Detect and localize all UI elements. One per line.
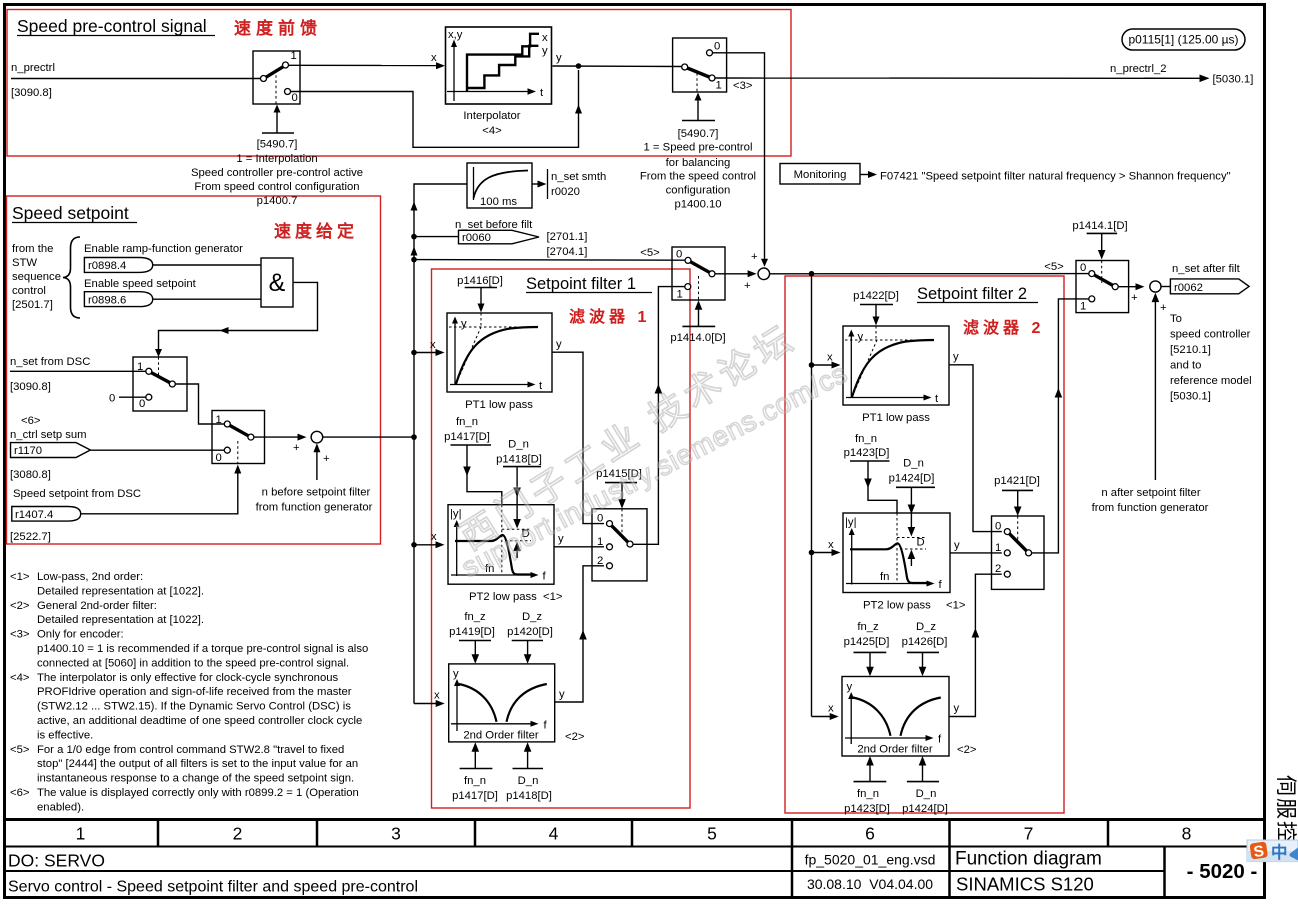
section title Speed pre-control signal (17, 16, 215, 36)
red group box Setpoint filter 1 (432, 269, 691, 808)
svg-text:Setpoint filter 1: Setpoint filter 1 (526, 275, 636, 293)
svg-text:<4>: <4> (10, 672, 30, 684)
svg-text:Setpoint filter 2: Setpoint filter 2 (917, 285, 1027, 303)
svg-text:n_prectrl_2: n_prectrl_2 (1110, 63, 1167, 75)
wire n_prectrl_2 output (715, 75, 1210, 83)
svg-text:Function diagram: Function diagram (955, 849, 1102, 870)
parameter fn_z p1425 D_z p1426 (844, 621, 948, 648)
svg-text:p1418[D]: p1418[D] (506, 790, 552, 802)
table scale numbers (76, 824, 1192, 844)
label PT2 low pass filter2 (863, 600, 966, 612)
svg-text:1: 1 (716, 80, 722, 92)
label fn_n D_n p1423 p1424 below (844, 788, 948, 815)
svg-text:The value is displayed correct: The value is displayed correctly only wi… (37, 787, 359, 799)
wire switch S5b output to summing node S5 (1118, 283, 1145, 304)
svg-text:- 5020 -: - 5020 - (1187, 860, 1258, 883)
svg-text:Detailed representation at [10: Detailed representation at [1022]. (37, 614, 204, 626)
svg-text:n_set smth: n_set smth (551, 171, 606, 183)
label n_set from DSC (10, 356, 90, 393)
svg-text:control: control (12, 285, 46, 297)
svg-text:Speed pre-control signal: Speed pre-control signal (17, 16, 207, 36)
connector tag r0062 (1170, 279, 1249, 294)
svg-text:<5>: <5> (640, 247, 660, 259)
svg-text:1: 1 (216, 414, 222, 426)
svg-text:x: x (430, 339, 436, 351)
svg-text:p1426[D]: p1426[D] (902, 636, 948, 648)
wire switch SA output to switch SB (175, 384, 224, 424)
wire interpolator output y to switch S2 (553, 52, 683, 67)
svg-text:is effective.: is effective. (37, 729, 93, 741)
svg-text:y: y (556, 52, 562, 64)
svg-text:n before setpoint filter: n before setpoint filter (262, 487, 371, 499)
wire PT2 filter1 output to switch SF1 pos1 (554, 533, 604, 547)
svg-text:[2704.1]: [2704.1] (547, 246, 588, 258)
svg-text:n_set before filt: n_set before filt (455, 219, 533, 231)
svg-text:reference model: reference model (1170, 375, 1252, 387)
parameter fn_n p1423 (844, 433, 890, 459)
svg-text:p1418[D]: p1418[D] (496, 454, 542, 466)
binector tag r1407.4 (12, 507, 81, 522)
PT2 low pass block filter2 (843, 513, 950, 593)
wire n_prectrl to switch S1 (11, 78, 261, 80)
interpolator U1 block (446, 27, 552, 104)
wire PT2 filter2 output to switch SF2 pos1 (950, 540, 1002, 553)
svg-text:r0020: r0020 (551, 186, 580, 198)
parameter p1414.1 (1072, 220, 1127, 232)
svg-text:r0898.6: r0898.6 (88, 295, 126, 307)
svg-text:0: 0 (995, 521, 1001, 533)
svg-text:from function generator: from function generator (256, 502, 373, 514)
svg-text:p1419[D]: p1419[D] (449, 626, 495, 638)
svg-text:x: x (431, 52, 437, 64)
red group box Setpoint filter 2 (785, 276, 1064, 813)
svg-text:0: 0 (714, 41, 720, 53)
svg-text:fn_n: fn_n (464, 775, 486, 787)
svg-text:<3>: <3> (10, 629, 30, 641)
switch S2 control arrow (682, 93, 715, 121)
svg-text:&: & (269, 269, 286, 297)
table text SINAMICS S120 (956, 874, 1094, 895)
wire r1407.4 to switch SB control (81, 465, 242, 514)
svg-text:y: y (453, 668, 459, 680)
svg-text:1: 1 (76, 824, 86, 844)
label switch S2 note 3 (733, 80, 753, 92)
svg-text:p1400.10: p1400.10 (674, 199, 721, 211)
svg-text:PT2 low pass: PT2 low pass (863, 600, 931, 612)
svg-text:1 = Speed pre-control: 1 = Speed pre-control (644, 142, 753, 154)
watermark url (456, 357, 852, 583)
svg-text:instantaneous response to a ch: instantaneous response to a change of th… (37, 773, 354, 785)
svg-text:速度给定: 速度给定 (274, 221, 358, 241)
red chinese label filter 1 (569, 307, 650, 326)
svg-text:x: x (434, 690, 440, 702)
table text page number 5020 (1187, 860, 1258, 883)
svg-text:Speed setpoint: Speed setpoint (12, 203, 129, 223)
svg-text:0: 0 (139, 398, 145, 410)
node A junction dot (576, 63, 582, 69)
svg-text:From speed control configurati: From speed control configuration (194, 181, 359, 193)
svg-text:Detailed representation at [10: Detailed representation at [1022]. (37, 585, 204, 597)
binector tag r0898.6 (84, 292, 152, 307)
table text date version (807, 876, 933, 892)
table text DO: SERVO (8, 851, 105, 871)
svg-text:D: D (917, 537, 925, 549)
switch S5a travel to fixed stop bypass (672, 247, 725, 301)
svg-text:滤波器 1: 滤波器 1 (569, 307, 650, 326)
switch S5b final bypass selector (1076, 261, 1129, 313)
svg-text:[3090.8]: [3090.8] (11, 87, 52, 99)
label note 5 (640, 247, 660, 259)
svg-text:Enable speed setpoint: Enable speed setpoint (84, 278, 197, 290)
wire switch S5a output to summing node S4 (715, 270, 757, 292)
svg-text:To: To (1170, 313, 1182, 325)
red chinese label filter 2 (963, 318, 1044, 337)
label p1414.0 (670, 332, 725, 344)
svg-text:configuration: configuration (666, 185, 731, 197)
svg-text:p0115[1] (125.00 µs): p0115[1] (125.00 µs) (1128, 33, 1238, 47)
vertical bus wire with junctions (411, 234, 418, 704)
svg-text:伺: 伺 (1274, 775, 1297, 796)
svg-text:fn_n: fn_n (855, 433, 877, 445)
svg-text:+: + (1160, 302, 1167, 314)
wire switch SF2 output up to switch S5b pos1 (1032, 299, 1089, 553)
label to speed controller (1170, 313, 1252, 403)
PT1 low pass block filter1 (447, 313, 552, 392)
svg-text:fn_z: fn_z (857, 621, 879, 633)
smoothing block 100ms (467, 163, 532, 208)
p1419 p1420 arrows into 2nd order filter1 (459, 641, 543, 664)
svg-text:p1414.1[D]: p1414.1[D] (1072, 220, 1127, 232)
svg-text:PT1 low pass: PT1 low pass (465, 399, 533, 411)
svg-text:<2>: <2> (957, 744, 977, 756)
svg-text:x: x (828, 703, 834, 715)
svg-text:p1414.0[D]: p1414.0[D] (670, 332, 725, 344)
svg-text:<1>: <1> (10, 571, 30, 583)
label note 2 filter2 (957, 744, 977, 756)
svg-text:滤波器 2: 滤波器 2 (963, 318, 1044, 337)
svg-text:for balancing: for balancing (666, 157, 731, 169)
svg-text:n_set from DSC: n_set from DSC (10, 356, 90, 368)
wire bus to 100ms block (411, 184, 468, 235)
svg-text:D_z: D_z (522, 611, 542, 623)
p1414.1 arrow into switch S5b (1087, 233, 1118, 259)
svg-text:<1>: <1> (543, 591, 563, 603)
parameter p1416 (457, 275, 503, 287)
table text Function diagram (955, 849, 1102, 870)
wire switch S1 pos0 bypass to node A (291, 70, 583, 147)
summing node S4 (758, 268, 770, 280)
svg-text:fn_n: fn_n (857, 788, 879, 800)
label Interpolator (463, 110, 520, 137)
svg-text:<5>: <5> (10, 744, 30, 756)
label n_set smth r0020 (551, 171, 606, 198)
svg-text:y: y (954, 703, 960, 715)
wire function generator input to S5 (1152, 293, 1160, 480)
label n_ctrl setp sum (10, 415, 87, 481)
svg-text:Monitoring: Monitoring (794, 169, 847, 181)
svg-text:[2701.1]: [2701.1] (547, 231, 588, 243)
svg-text:中: 中 (1271, 842, 1288, 862)
wire switch S1 pos1 to interpolator (289, 52, 446, 69)
connector tag r1170 (11, 443, 91, 458)
label n_set before filt (455, 219, 533, 231)
wire 2nd order filter2 output to switch SF2 pos2 (949, 574, 1002, 716)
svg-text:p1423[D]: p1423[D] (844, 447, 890, 459)
svg-text:1: 1 (597, 536, 603, 548)
parameter fn_n p1423 below (854, 756, 887, 782)
svg-text:Servo control - Speed setpoint: Servo control - Speed setpoint filter an… (8, 879, 418, 896)
svg-text:7: 7 (1024, 824, 1034, 844)
svg-text:enabled).: enabled). (37, 801, 84, 813)
svg-text:服: 服 (1274, 798, 1297, 819)
svg-text:2: 2 (233, 824, 243, 844)
switch S1 control arrow from p1400.7 (262, 105, 294, 134)
svg-text:[3090.8]: [3090.8] (10, 381, 51, 393)
parameter D_n p1418 below (513, 742, 544, 768)
wire bus x into 2nd order filter2 (812, 703, 839, 721)
svg-text:30.08.10 V04.04.00: 30.08.10 V04.04.00 (807, 876, 933, 892)
p1417 arrow into PT2 filter1 (451, 445, 502, 505)
label 5490.7 balancing note (640, 128, 756, 211)
svg-text:y: y (542, 45, 548, 57)
svg-text:0: 0 (109, 393, 115, 405)
label Enable ramp-function generator (84, 243, 243, 255)
label Speed setpoint from DSC (10, 488, 141, 543)
svg-text:p1425[D]: p1425[D] (844, 636, 890, 648)
svg-text:and to: and to (1170, 360, 1201, 372)
title block table lines (3, 820, 1265, 898)
svg-text:y: y (847, 681, 853, 693)
svg-text:speed controller: speed controller (1170, 329, 1251, 341)
svg-text:<6>: <6> (10, 787, 30, 799)
svg-text:connected at [5060] in additio: connected at [5060] in addition to the s… (37, 657, 349, 669)
svg-text:y: y (858, 331, 864, 343)
watermark chinese forum (452, 316, 803, 558)
label 5490.7 interpolation note (191, 139, 363, 208)
svg-text:r0062: r0062 (1174, 282, 1203, 294)
p1415 arrow into switch SF1 (605, 483, 637, 509)
wire function generator input to S3 (313, 443, 320, 480)
svg-text:5: 5 (707, 824, 717, 844)
svg-text:p1420[D]: p1420[D] (507, 626, 553, 638)
label note 5 right (1044, 261, 1064, 273)
wire switch SB output to summing node S3 (254, 434, 307, 454)
sampling time pill p0115 (1122, 29, 1245, 50)
svg-text:active, an additional deadtime: active, an additional deadtime of one sp… (37, 715, 362, 727)
svg-text:For a 1/0 edge from control co: For a 1/0 edge from control command STW2… (37, 744, 344, 756)
wire bus branch to filter bypass switch S5a (414, 259, 685, 262)
parameter fn_n p1417 (444, 416, 490, 443)
red group box Speed setpoint (7, 196, 381, 544)
svg-text:p1400.10 = 1 is recommended if: p1400.10 = 1 is recommended if a torque … (37, 643, 368, 655)
svg-text:from the: from the (12, 243, 53, 255)
svg-text:p1400.7: p1400.7 (257, 195, 298, 207)
switch SB r1170 selector (212, 411, 265, 465)
svg-text:100 ms: 100 ms (480, 196, 517, 208)
svg-text:r0060: r0060 (462, 232, 491, 244)
binector tag r0898.4 (84, 258, 152, 273)
svg-text:n_prectrl: n_prectrl (11, 62, 55, 74)
wire bus x into PT2 filter1 (414, 531, 445, 548)
svg-text:[5490.7]: [5490.7] (678, 128, 719, 140)
svg-text:Speed controller pre-control a: Speed controller pre-control active (191, 167, 363, 179)
svg-text:速度前馈: 速度前馈 (234, 18, 322, 38)
label F07421 fault text (880, 171, 1231, 183)
svg-text:+: + (1131, 292, 1138, 304)
table text diagram title (8, 879, 418, 896)
curly brace (63, 237, 80, 318)
svg-text:STW: STW (12, 257, 37, 269)
node n_prectrl input label (11, 62, 55, 99)
wire 2nd order filter1 output to switch SF1 pos2 (555, 566, 604, 702)
svg-text:D_n: D_n (903, 458, 924, 470)
svg-text:p1417[D]: p1417[D] (452, 790, 498, 802)
monitoring block (780, 164, 860, 185)
svg-text:[5030.1]: [5030.1] (1213, 74, 1254, 86)
vertical bus wire filter2 (809, 274, 815, 717)
svg-text:stop" [2444] the output of all: stop" [2444] the output of all filters i… (37, 758, 358, 770)
svg-text:<5>: <5> (1044, 261, 1064, 273)
label n_set after filt (1172, 263, 1241, 275)
svg-text:<2>: <2> (10, 600, 30, 612)
PT1 low pass block filter2 (843, 326, 949, 405)
svg-text:Only for encoder:: Only for encoder: (37, 629, 124, 641)
svg-text:+: + (744, 280, 751, 292)
wire r0898.6 to AND gate (153, 298, 261, 300)
switch SA n_set from DSC selector (133, 357, 187, 411)
wire bus x into PT1 filter2 (812, 352, 841, 369)
switch S1 interpolation selector (253, 50, 300, 104)
svg-text:p1416[D]: p1416[D] (457, 275, 503, 287)
label n before setpoint filter (256, 487, 373, 514)
parameter p1415 (596, 468, 642, 480)
wire switch S2 pos0 down to summing node (713, 53, 769, 267)
svg-text:控: 控 (1274, 821, 1297, 842)
p1421 arrow into switch SF2 (1002, 490, 1033, 516)
p1422 arrow into PT1 filter2 (860, 305, 893, 326)
wire switch SF1 output up to bypass switch S5a pos1 (633, 287, 685, 545)
2nd order filter block filter1 (449, 664, 555, 742)
svg-text:+: + (751, 251, 758, 263)
svg-text:2: 2 (995, 563, 1001, 575)
section title Setpoint filter 2 (917, 285, 1038, 303)
parameter p1421 (994, 475, 1040, 487)
svg-text:General 2nd-order filter:: General 2nd-order filter: (37, 600, 157, 612)
svg-text:[5210.1]: [5210.1] (1170, 344, 1211, 356)
svg-text:<6>: <6> (21, 415, 41, 427)
svg-text:<4>: <4> (482, 125, 502, 137)
svg-text:0: 0 (1080, 262, 1086, 274)
wire r0898.4 to AND gate (153, 264, 261, 266)
wire summing node S4 to switch S5b pos0 (770, 271, 1089, 277)
label n_prectrl_2 (1110, 63, 1253, 86)
svg-text:1: 1 (677, 289, 683, 301)
svg-text:PT1 low pass: PT1 low pass (862, 412, 930, 424)
svg-text:[5030.1]: [5030.1] (1170, 391, 1211, 403)
svg-text:p1422[D]: p1422[D] (853, 290, 899, 302)
svg-text:0: 0 (676, 249, 682, 261)
svg-text:0: 0 (292, 92, 298, 104)
label Enable speed setpoint (84, 278, 197, 290)
svg-text:D_z: D_z (916, 621, 936, 633)
section title Speed setpoint (12, 203, 137, 223)
section title Setpoint filter 1 (526, 275, 652, 293)
wire S5 to r0062 (1161, 286, 1171, 288)
label fn_n D_n p1417 p1418 below (452, 775, 552, 802)
wire AND output to switch SA control (155, 282, 318, 357)
label 2701.1 2704.1 (547, 231, 588, 258)
svg-text:sequence: sequence (12, 271, 61, 283)
p1425 p1426 arrows into 2nd order filter2 (854, 652, 940, 676)
svg-text:<1>: <1> (946, 600, 966, 612)
svg-text:SINAMICS S120: SINAMICS S120 (956, 874, 1094, 895)
wire PT1 filter1 output to switch SF1 pos0 (552, 339, 604, 524)
switch SF1 filter1 output selector (592, 509, 647, 581)
svg-text:+: + (293, 442, 300, 454)
label PT1 low pass filter2 (862, 412, 930, 424)
svg-text:y: y (954, 540, 960, 552)
svg-text:The interpolator is only effec: The interpolator is only effective for c… (37, 672, 339, 684)
wire bus x into PT2 filter2 (812, 539, 841, 556)
svg-text:fn: fn (880, 571, 889, 583)
svg-text:D_n: D_n (518, 775, 539, 787)
svg-text:x: x (828, 539, 834, 551)
wire S3 to main bus (323, 436, 414, 438)
svg-text:p1417[D]: p1417[D] (444, 431, 490, 443)
svg-text:D_n: D_n (508, 439, 529, 451)
svg-text:[2522.7]: [2522.7] (10, 531, 51, 543)
svg-text:[5490.7]: [5490.7] (257, 139, 298, 151)
monitoring arrow (860, 171, 877, 178)
svg-text:4: 4 (549, 824, 559, 844)
constant 0 input (109, 393, 146, 405)
label from the STW sequence control (12, 243, 61, 311)
svg-text:fp_5020_01_eng.vsd: fp_5020_01_eng.vsd (805, 852, 936, 868)
switch S5a control arrow p1414.0 (682, 300, 715, 326)
parameter D_n p1418 (496, 439, 542, 466)
switch SF2 filter2 output selector (992, 516, 1045, 589)
svg-text:y: y (559, 689, 565, 701)
wire bus x into PT1 filter1 (414, 339, 445, 356)
table text file name (805, 852, 936, 868)
svg-text:p1423[D]: p1423[D] (844, 803, 890, 815)
svg-text:r1407.4: r1407.4 (15, 509, 53, 521)
sogou input bar (1247, 840, 1298, 862)
p1418 arrow into PT2 filter1 (503, 467, 541, 558)
summing node S3 (311, 431, 330, 465)
AND gate U2 (261, 258, 293, 307)
parameter fn_n p1417 below (460, 742, 493, 768)
svg-text:Speed setpoint from DSC: Speed setpoint from DSC (13, 488, 141, 500)
svg-text:n_ctrl setp sum: n_ctrl setp sum (10, 429, 87, 441)
svg-text:+: + (323, 453, 330, 465)
PT2 low pass block filter1 (448, 505, 554, 585)
red chinese label speed feedforward (234, 18, 322, 38)
wire bus to r0060 (414, 236, 459, 238)
wire 100ms output n_set smth (532, 169, 548, 199)
wire r1170 to switch SB (90, 449, 224, 451)
svg-text:p1421[D]: p1421[D] (994, 475, 1040, 487)
p1423 arrow into PT2 filter2 (850, 461, 897, 513)
svg-text:PROFIdrive operation and sign-: PROFIdrive operation and sign-of-life re… (37, 686, 352, 698)
svg-text:6: 6 (865, 824, 875, 844)
red group box Speed pre-control signal (7, 10, 791, 157)
svg-text:2: 2 (597, 555, 603, 567)
svg-text:|y|: |y| (845, 517, 857, 529)
svg-text:[3080.8]: [3080.8] (10, 469, 51, 481)
svg-text:1: 1 (995, 542, 1001, 554)
svg-text:D_n: D_n (916, 788, 937, 800)
